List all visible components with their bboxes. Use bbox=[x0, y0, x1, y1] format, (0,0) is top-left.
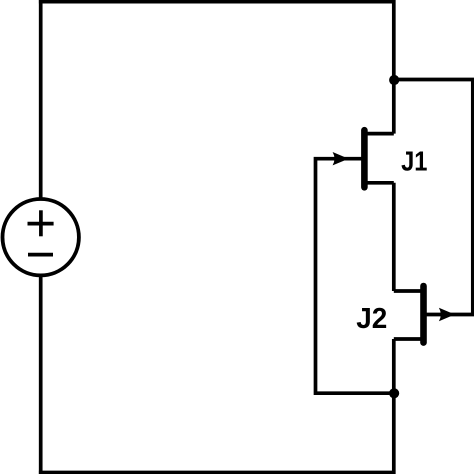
svg-text:J2: J2 bbox=[356, 302, 387, 334]
svg-text:J1: J1 bbox=[401, 147, 427, 177]
